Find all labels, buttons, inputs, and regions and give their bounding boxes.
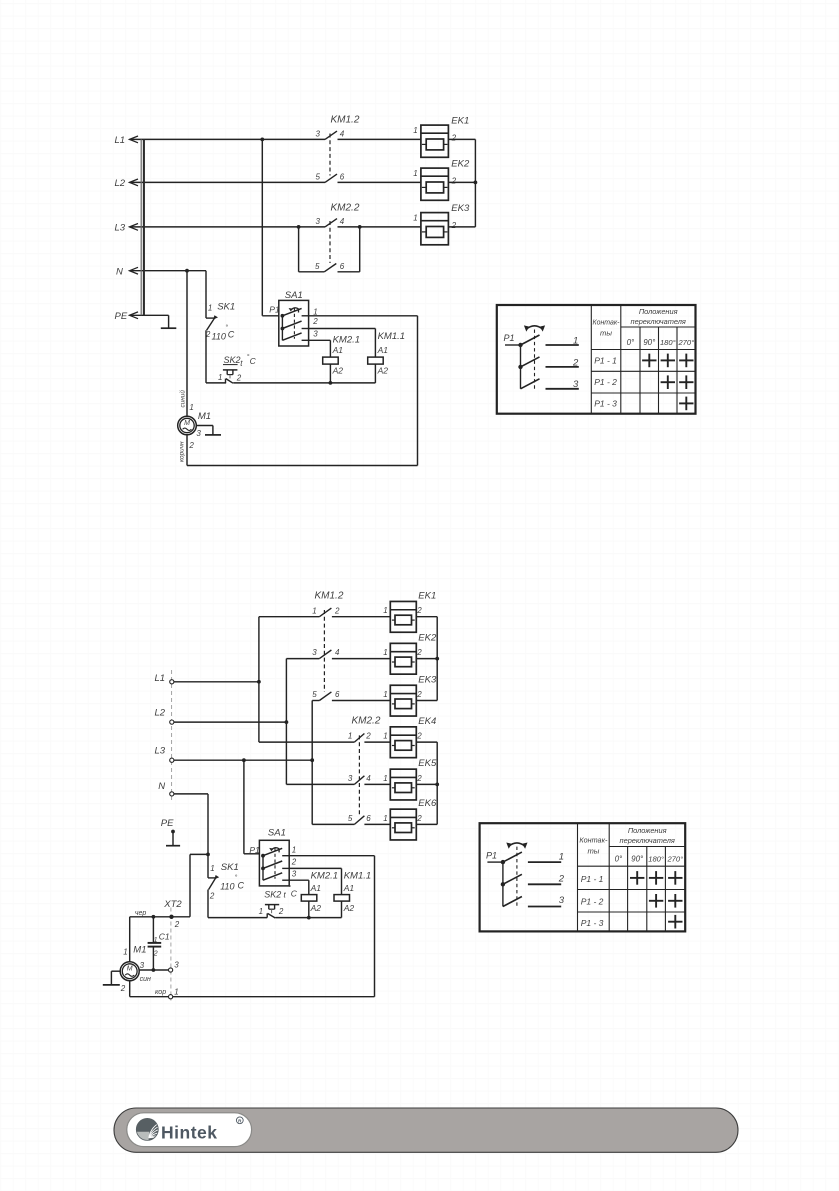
svg-text:P1: P1: [504, 333, 515, 343]
svg-text:EK2: EK2: [418, 632, 437, 643]
svg-text:2: 2: [416, 814, 422, 823]
wire PE to ground (top): [130, 315, 169, 328]
svg-text:6: 6: [340, 173, 345, 182]
svg-text:M: M: [184, 420, 190, 427]
wire KM2.2 bypass loop (top): [299, 227, 360, 272]
wire SA1 pin2 to KM1.1 coil (top): [309, 329, 376, 358]
svg-text:KM1.2: KM1.2: [315, 591, 344, 602]
capacitor C1: [148, 917, 162, 972]
svg-text:PE: PE: [115, 311, 128, 322]
label EK1 (bottom): [383, 591, 436, 616]
svg-text:2: 2: [572, 357, 579, 368]
contactor contact KM2.2 5-6 (bottom): [348, 814, 390, 824]
terminal strip dashed line (bottom): [171, 670, 173, 800]
svg-text:270°: 270°: [677, 338, 694, 347]
svg-text:90°: 90°: [631, 855, 644, 864]
svg-text:1: 1: [210, 864, 214, 873]
svg-text:1: 1: [413, 169, 417, 178]
svg-text:5: 5: [312, 690, 317, 699]
wire SA1 pin1 to right rail (bottom): [289, 855, 374, 857]
wire L3 tap to SA1 P1 (bottom): [244, 760, 260, 854]
svg-text:SK2: SK2: [264, 889, 281, 899]
svg-text:SA1: SA1: [285, 290, 303, 301]
svg-text:Положения: Положения: [628, 826, 667, 835]
svg-text:EK4: EK4: [418, 716, 436, 727]
label SK2 (bottom): [259, 884, 298, 916]
svg-text:90°: 90°: [643, 338, 656, 347]
svg-text:2: 2: [416, 648, 422, 657]
svg-text:1: 1: [208, 303, 212, 312]
label SK1 (bottom): [209, 862, 245, 901]
thermal switch SK2 (top): [223, 370, 238, 383]
svg-text:2: 2: [416, 606, 422, 615]
wire branch to black lead (bottom): [130, 854, 208, 918]
svg-text:3: 3: [312, 648, 317, 657]
svg-text:KM1.1: KM1.1: [344, 871, 371, 882]
svg-text:M1: M1: [133, 945, 146, 956]
logo Hintek text: [161, 1117, 243, 1143]
wire L2 horizontal (top): [130, 181, 421, 183]
svg-text:N: N: [158, 781, 165, 792]
svg-text:A2: A2: [343, 903, 355, 913]
svg-text:син: син: [140, 976, 151, 983]
table crosses row P1-1 (top): [642, 354, 693, 368]
label SA1 (top): [269, 290, 318, 339]
svg-text:1: 1: [312, 606, 316, 615]
contactor contact KM1.2 3-4 (top): [316, 130, 345, 140]
label KM2.1 (top): [332, 335, 360, 376]
svg-text:C: C: [250, 356, 257, 366]
svg-text:4: 4: [366, 774, 371, 783]
heater EK2 (bottom): [390, 643, 416, 674]
wire L2 feed (bottom): [174, 659, 355, 785]
svg-text:1: 1: [383, 690, 387, 699]
svg-text:переключателя: переключателя: [631, 317, 686, 326]
svg-text:3: 3: [140, 961, 145, 970]
wire motor leads (bottom): [130, 917, 375, 997]
wire L3 horizontal (top): [130, 225, 421, 229]
svg-text:EK2: EK2: [451, 159, 470, 170]
svg-text:6: 6: [366, 814, 371, 823]
logo Hintek icon: [135, 1118, 159, 1141]
svg-text:2: 2: [278, 907, 284, 916]
svg-text:4: 4: [340, 130, 345, 139]
ground symbol PE (top): [161, 327, 177, 329]
svg-text:3: 3: [316, 217, 321, 226]
svg-text:2: 2: [451, 221, 457, 230]
wire L1 horizontal (top): [130, 138, 421, 142]
svg-text:KM2.1: KM2.1: [333, 335, 360, 346]
motor M1 (top): [178, 416, 197, 435]
table cross row P1-3 (top): [679, 397, 693, 411]
svg-text:2: 2: [120, 984, 126, 993]
contactor contact KM2.2 5-6 (top): [315, 262, 345, 272]
table crosses row P1-2 (bottom): [649, 894, 683, 908]
svg-text:PE: PE: [161, 818, 174, 829]
ground symbol motor (bottom): [103, 984, 120, 986]
svg-text:1: 1: [559, 851, 564, 862]
svg-text:M1: M1: [198, 411, 211, 422]
thermal switch SK1 (bottom): [208, 875, 219, 890]
wire L1 tap down to SA1 P1 (top): [262, 139, 279, 315]
contactor coil KM2.1 (top): [323, 357, 339, 383]
svg-text:N: N: [116, 266, 123, 277]
svg-text:2: 2: [334, 606, 340, 615]
svg-text:EK3: EK3: [451, 203, 470, 214]
svg-text:KM2.1: KM2.1: [311, 871, 338, 882]
svg-text:180°: 180°: [660, 338, 676, 347]
terminal N (bottom): [158, 781, 174, 796]
terminal XT2-3: [169, 961, 180, 973]
label KM1.1 (bottom): [343, 871, 371, 914]
contactor contact KM1.2 3-4 (bottom): [312, 648, 390, 658]
svg-text:P1 - 3: P1 - 3: [594, 399, 617, 409]
svg-text:L3: L3: [115, 223, 126, 234]
table positions grid (bottom): [480, 823, 686, 931]
contactor contact KM2.2 1-2 (bottom): [348, 732, 390, 742]
svg-text:1: 1: [259, 907, 263, 916]
svg-text:1: 1: [573, 336, 578, 347]
svg-text:A1: A1: [310, 883, 322, 893]
svg-text:2: 2: [416, 774, 422, 783]
svg-text:P1: P1: [269, 305, 280, 315]
wire SA1 pin3 to KM2.1 coil (top): [309, 340, 331, 357]
wire heater outputs star bus (top): [448, 139, 477, 227]
svg-text:L1: L1: [115, 135, 126, 146]
mech link dashed KM2.2 (top): [329, 221, 331, 263]
table switch graphic P1 (bottom): [486, 843, 565, 908]
svg-text:2: 2: [188, 441, 194, 450]
svg-text:P1 - 2: P1 - 2: [581, 897, 604, 907]
heater EK1 (bottom): [390, 601, 416, 632]
label EK4 (bottom): [383, 716, 436, 741]
svg-text:1: 1: [174, 987, 178, 996]
label SK1 (top): [205, 301, 235, 341]
label EK2 (top): [413, 159, 470, 186]
svg-text:1: 1: [383, 774, 387, 783]
svg-text:EK5: EK5: [418, 758, 437, 769]
svg-text:чер: чер: [135, 910, 147, 917]
wire SA1 pin2 to KM1.1 coil (bottom): [289, 868, 341, 894]
svg-text:4: 4: [340, 217, 345, 226]
svg-text:KM1.1: KM1.1: [378, 331, 405, 342]
table positions grid (top): [497, 305, 696, 414]
svg-text:6: 6: [340, 262, 345, 271]
svg-text:A1: A1: [332, 345, 344, 355]
svg-text:переключателя: переключателя: [620, 836, 675, 845]
svg-text:3: 3: [196, 429, 201, 438]
svg-text:P1 - 1: P1 - 1: [581, 874, 604, 884]
svg-text:5: 5: [315, 262, 320, 271]
contactor contact KM1.2 5-6 (bottom): [312, 690, 390, 700]
svg-text:1: 1: [413, 126, 417, 135]
svg-text:XT2: XT2: [163, 899, 182, 910]
label KM2.1 (bottom): [310, 871, 338, 914]
label EK5 (bottom): [383, 758, 437, 783]
node L1 (top diagram) label and arrow: [115, 135, 139, 146]
wire right rail return (bottom): [374, 856, 376, 997]
svg-text:2: 2: [416, 690, 422, 699]
svg-text:A1: A1: [377, 345, 389, 355]
svg-text:P1 - 2: P1 - 2: [594, 377, 617, 387]
rotary switch SA1 (top): [279, 300, 309, 346]
svg-text:KM1.2: KM1.2: [331, 115, 360, 126]
svg-text:0°: 0°: [615, 855, 623, 864]
svg-text:6: 6: [335, 690, 340, 699]
contactor contact KM1.2 1-2 (bottom): [312, 606, 390, 616]
terminal XT2-1: [169, 987, 179, 999]
table cross row P1-3 (bottom): [668, 915, 682, 929]
svg-text:C: C: [228, 330, 235, 340]
label EK2 (bottom): [383, 632, 437, 657]
svg-text:A2: A2: [310, 903, 322, 913]
svg-text:SK1: SK1: [221, 862, 239, 873]
svg-text:синий: синий: [178, 390, 186, 408]
contactor contact KM1.2 5-6 (top): [316, 173, 345, 183]
heater EK2 (top): [421, 168, 449, 200]
wire heater star bus 4-6 (bottom): [416, 742, 439, 824]
table row labels (top): [594, 355, 617, 408]
thermal switch SK1 (top): [206, 315, 218, 330]
terminal strip XT2 dashed line: [170, 908, 172, 1001]
svg-text:ты: ты: [587, 846, 599, 855]
svg-text:Hintek: Hintek: [161, 1123, 217, 1143]
thermal switch SK2 (bottom): [265, 905, 279, 918]
table crosses row P1-2 (top): [661, 375, 694, 389]
svg-text:SK1: SK1: [217, 301, 235, 312]
heater EK6 (bottom): [390, 809, 416, 840]
label M1 (top): [188, 403, 211, 450]
mech link dashed KM2.2 (bottom): [358, 735, 360, 816]
svg-text:SK2: SK2: [224, 355, 241, 365]
node N (top diagram) label and arrow: [116, 266, 138, 277]
svg-text:110: 110: [220, 882, 234, 892]
vertical feeder double line (top): [141, 139, 144, 315]
label SA1 (bottom): [249, 828, 296, 879]
label C1: [153, 931, 170, 957]
heater EK3 (top): [421, 213, 449, 245]
logo white pill: [127, 1113, 252, 1147]
svg-text:3: 3: [313, 329, 318, 338]
svg-text:3: 3: [292, 870, 297, 879]
ground symbol motor (top): [205, 434, 221, 436]
table row labels (bottom): [581, 874, 604, 928]
contactor coil KM2.1 (bottom): [301, 895, 317, 918]
wire SK2 to coil commons (bottom): [275, 916, 341, 920]
mech link dashed KM1.2 (top): [329, 134, 331, 176]
svg-text:KM2.2: KM2.2: [331, 202, 360, 213]
wire heater star bus 1-3 (bottom): [416, 617, 439, 701]
terminal PE with ground (bottom): [161, 818, 180, 846]
svg-text:2: 2: [209, 892, 215, 901]
svg-text:3: 3: [174, 961, 179, 970]
terminal XT2-2: [169, 915, 180, 929]
svg-text:L3: L3: [155, 746, 166, 757]
label KM2.2 (bottom): [352, 716, 381, 727]
wire motor pin3 to ground (top): [196, 426, 213, 435]
svg-text:P1 - 1: P1 - 1: [594, 355, 617, 365]
svg-text:1: 1: [383, 732, 387, 741]
svg-text:1: 1: [189, 403, 193, 412]
motor M1 (bottom): [120, 962, 139, 981]
svg-text:2: 2: [365, 732, 371, 741]
svg-text:1: 1: [348, 732, 352, 741]
svg-text:кор: кор: [155, 989, 166, 996]
svg-text:L2: L2: [115, 178, 126, 189]
svg-text:1: 1: [413, 214, 417, 223]
node L2 (top diagram) label and arrow: [115, 178, 139, 189]
label KM1.2 (top): [331, 115, 360, 126]
label XT2: [163, 899, 182, 910]
node PE (top diagram) label and arrow: [115, 311, 139, 322]
wire motor case to ground (bottom): [111, 971, 120, 985]
svg-text:0°: 0°: [627, 338, 635, 347]
svg-text:2: 2: [451, 133, 457, 142]
svg-text:SA1: SA1: [268, 828, 286, 839]
svg-text:EK3: EK3: [418, 674, 437, 685]
wire L3 feed (bottom): [174, 701, 355, 825]
svg-text:L2: L2: [155, 708, 166, 719]
svg-text:270°: 270°: [666, 855, 683, 864]
svg-text:C: C: [238, 881, 245, 891]
svg-text:4: 4: [335, 648, 340, 657]
label EK6 (bottom): [383, 798, 437, 823]
svg-text:2: 2: [312, 317, 318, 326]
svg-text:A2: A2: [332, 366, 344, 376]
svg-text:ты: ты: [600, 329, 612, 338]
svg-text:3: 3: [573, 379, 579, 390]
heater EK5 (bottom): [390, 769, 416, 800]
svg-text:1: 1: [383, 814, 387, 823]
svg-text:2: 2: [236, 373, 242, 382]
svg-text:5: 5: [316, 173, 321, 182]
label KM1.2 (bottom): [315, 591, 344, 602]
svg-text:1: 1: [313, 307, 317, 316]
svg-text:2: 2: [174, 920, 180, 929]
wire SA1 pin3 to KM2.1 coil (bottom): [289, 880, 309, 894]
label EK3 (top): [413, 203, 470, 230]
svg-text:1: 1: [154, 937, 158, 944]
label EK3 (bottom): [383, 674, 437, 699]
contactor contact KM2.2 3-4 (top): [316, 217, 345, 227]
contactor coil KM1.1 (bottom): [334, 895, 350, 918]
svg-text:A2: A2: [377, 366, 389, 376]
svg-text:1: 1: [123, 948, 127, 957]
wire N horizontal (top): [130, 269, 207, 273]
label SK2 (top): [218, 353, 257, 382]
svg-text:1: 1: [218, 373, 222, 382]
table header text (bottom): [579, 826, 683, 864]
svg-text:5: 5: [348, 814, 353, 823]
svg-text:EK1: EK1: [418, 591, 436, 602]
heater EK1 (top): [421, 125, 449, 157]
wire N down through SK1 (top): [205, 271, 207, 318]
svg-text:A1: A1: [343, 883, 355, 893]
svg-text:1: 1: [383, 648, 387, 657]
wire L1 feed (bottom): [174, 617, 355, 742]
svg-text:Контак-: Контак-: [593, 318, 620, 327]
terminal L2 (bottom): [155, 708, 174, 725]
table switch graphic P1 (top): [504, 325, 580, 390]
svg-text:Положения: Положения: [639, 307, 678, 316]
label wire colors motor (bottom): [135, 910, 166, 996]
heater EK4 (bottom): [390, 727, 416, 758]
label wire colors motor (top): [178, 390, 186, 462]
heater EK3 (bottom): [390, 685, 416, 716]
svg-text:1: 1: [383, 606, 387, 615]
logo bar background: [114, 1108, 738, 1152]
terminal L1 (bottom): [155, 673, 174, 684]
svg-text:2: 2: [291, 858, 297, 867]
svg-text:M: M: [127, 966, 133, 973]
rotary switch SA1 (bottom): [259, 840, 289, 886]
svg-text:EK6: EK6: [418, 798, 437, 809]
label M1 (bottom): [120, 945, 147, 994]
table header text (top): [593, 307, 695, 347]
svg-text:C1: C1: [159, 931, 170, 941]
svg-text:P1: P1: [486, 850, 497, 860]
terminal L3 (bottom): [155, 746, 174, 763]
svg-text:2: 2: [451, 176, 457, 185]
wire SK2 to coil commons (top): [233, 381, 375, 385]
svg-text:2: 2: [558, 873, 565, 884]
contactor contact KM2.2 3-4 (bottom): [348, 774, 390, 784]
svg-text:2: 2: [416, 732, 422, 741]
label KM1.1 (top): [377, 331, 405, 376]
svg-text:коричн: коричн: [179, 441, 186, 462]
svg-text:Контак-: Контак-: [579, 835, 607, 844]
svg-text:110: 110: [212, 331, 226, 341]
wire N down to motor (top): [186, 271, 188, 417]
contactor coil KM1.1 (top): [368, 357, 384, 383]
table crosses row P1-1 (bottom): [630, 871, 683, 885]
svg-text:3: 3: [559, 895, 565, 906]
svg-text:180°: 180°: [648, 855, 664, 864]
wire N down to SK1 (bottom): [174, 794, 210, 878]
wire SK1 to SK2 (top): [206, 330, 226, 383]
svg-text:P1: P1: [249, 845, 260, 855]
svg-text:L1: L1: [155, 673, 166, 684]
wire SK1 to SK2 (bottom): [208, 890, 267, 918]
wire SA1 pin1 to right rail (top): [309, 315, 418, 317]
label EK1 (top): [413, 116, 469, 143]
svg-text:P1 - 3: P1 - 3: [581, 918, 604, 928]
svg-text:KM2.2: KM2.2: [352, 716, 381, 727]
svg-text:2: 2: [153, 950, 158, 957]
svg-text:C: C: [291, 889, 298, 899]
svg-text:3: 3: [316, 130, 321, 139]
svg-text:1: 1: [292, 846, 296, 855]
wire right rail and bottom return (top): [187, 316, 418, 466]
label KM2.2 (top): [331, 202, 360, 213]
node L3 (top diagram) label and arrow: [115, 223, 139, 234]
mech link dashed KM1.2 (bottom): [323, 610, 325, 692]
svg-text:EK1: EK1: [451, 116, 469, 127]
svg-text:3: 3: [348, 774, 353, 783]
